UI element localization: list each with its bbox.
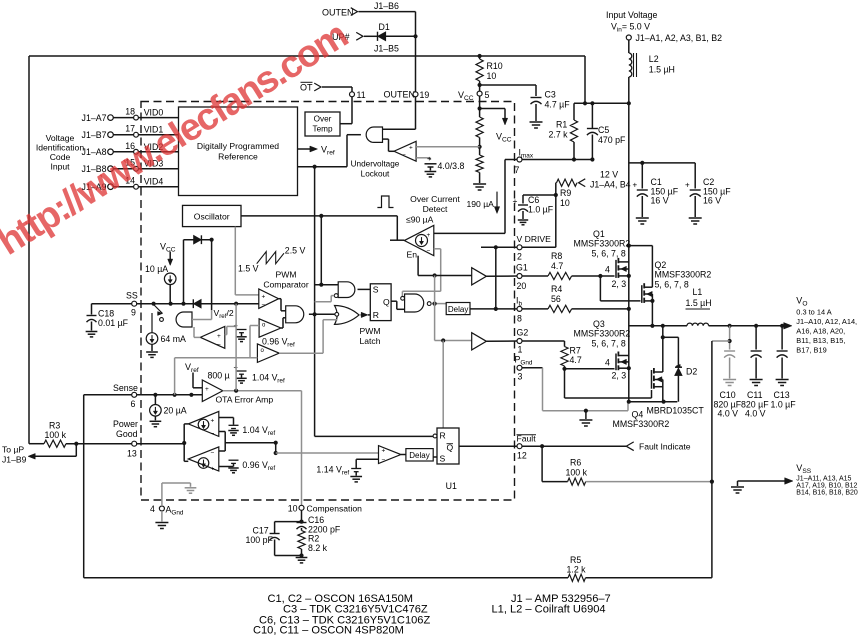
svg-text:G2: G2 (517, 328, 529, 338)
wire sense frame drop (83, 395, 85, 578)
resistor R4 (522, 284, 572, 313)
node sawtooth (238, 246, 305, 274)
svg-text:6: 6 (131, 399, 136, 409)
node VID caption (36, 133, 84, 172)
svg-text:1.04 V: 1.04 V (252, 373, 278, 383)
svg-text:D2: D2 (686, 367, 697, 377)
svg-text:+: + (382, 448, 386, 455)
wire Q3 gate feed (565, 368, 615, 370)
capacitor C1 (633, 163, 679, 217)
ground 64mA (146, 344, 158, 357)
svg-text:100 k: 100 k (566, 468, 588, 478)
svg-text:Fault Indicate: Fault Indicate (639, 442, 691, 452)
current source 10uA (145, 264, 176, 285)
node 0.96 PG label (242, 460, 275, 472)
block oscillator (183, 205, 242, 226)
svg-text:Latch: Latch (359, 336, 380, 346)
svg-text:C11: C11 (747, 390, 763, 400)
svg-text:−: − (211, 431, 215, 438)
wire 1.14 to delay (401, 454, 406, 456)
node VCC flag internal (160, 242, 176, 266)
resistor R5 (567, 555, 587, 581)
svg-text:4.0/3.8: 4.0/3.8 (438, 161, 465, 171)
node Vin label (606, 10, 657, 34)
wire AND1 out (309, 312, 335, 316)
ground 1.04 ref (236, 378, 246, 383)
svg-text:ref: ref (287, 342, 295, 349)
wire pin11 to OverTemp (340, 97, 352, 124)
svg-text:1.2 k: 1.2 k (567, 564, 587, 574)
svg-text:A16, A18, A20,: A16, A18, A20, (796, 327, 845, 336)
gate UVLO and (366, 127, 382, 142)
svg-text:+: + (427, 154, 432, 163)
wire AGnd external (161, 511, 163, 522)
svg-text:−: − (382, 457, 386, 464)
wire UVLO gate out (298, 135, 361, 169)
pin 19 OUTEN (384, 90, 430, 101)
svg-text:MMSF3300R2: MMSF3300R2 (655, 270, 712, 280)
pin 2 VDRIVE (517, 234, 552, 262)
wire Q2 source (650, 294, 654, 328)
wire G2 (522, 341, 565, 347)
svg-text:+: + (205, 386, 209, 393)
terminal J1&#8211;A8 (82, 147, 114, 157)
resistor R6 (566, 458, 588, 486)
pin 5 VCC (458, 90, 490, 102)
svg-text:4.0 V: 4.0 V (745, 409, 766, 419)
ground 0.96 ref (236, 337, 246, 342)
wire Q4 gate feed (565, 369, 652, 398)
wire divider tap (478, 138, 482, 156)
wire fault R input (315, 435, 433, 437)
node Vref OTA (185, 362, 202, 388)
comparator PG lower (184, 447, 219, 473)
svg-text:C3: C3 (545, 90, 556, 100)
svg-text:1.0 µF: 1.0 µF (771, 400, 797, 410)
battery 1.04 PG (219, 418, 239, 429)
svg-text:Q4: Q4 (632, 410, 644, 420)
svg-text:Identification: Identification (36, 143, 84, 153)
comparator 0.96 (259, 319, 281, 337)
svg-text:B11, B13, B15,: B11, B13, B15, (796, 336, 845, 345)
svg-text:MMSF3300R2: MMSF3300R2 (574, 239, 631, 249)
node U1 label (446, 481, 457, 491)
wire UP# to D1 (364, 35, 378, 37)
svg-text:Q1: Q1 (593, 229, 605, 239)
svg-text:R: R (440, 431, 446, 441)
svg-text:OUTEN: OUTEN (322, 8, 354, 18)
ground PGnd (579, 411, 592, 426)
svg-text:+: + (217, 333, 221, 340)
svg-text:C17: C17 (253, 526, 269, 536)
svg-text:470 pF: 470 pF (598, 135, 626, 145)
transistor Q1 (574, 229, 631, 289)
pin 10 Compensation (288, 504, 362, 514)
diode D1 (374, 22, 399, 54)
wire PWM out (279, 299, 286, 311)
wire Sense left (84, 394, 132, 396)
current source 64mA (146, 333, 186, 345)
svg-text:U1: U1 (446, 481, 457, 491)
svg-text:MMSF3300R2: MMSF3300R2 (613, 419, 670, 429)
wire comp2 out (281, 318, 286, 328)
svg-text:20 µA: 20 µA (164, 406, 187, 416)
wire VID0 to reference (138, 117, 178, 119)
wire J1&#8211;B7 to pin (113, 134, 133, 136)
svg-text:J1–A8: J1–A8 (82, 147, 107, 157)
gate OR pwm (335, 306, 360, 325)
wire L2 to node (628, 77, 630, 103)
svg-text:+: + (685, 181, 690, 190)
wire PGnd route (522, 368, 628, 413)
wire clamp comp in (225, 326, 236, 334)
svg-text:Comparator: Comparator (263, 280, 309, 290)
ground 1.14 (350, 477, 362, 482)
pin 7 Imax (515, 148, 534, 176)
svg-text:Delay: Delay (448, 305, 468, 314)
svg-text:PWM: PWM (275, 270, 296, 280)
gate NAND1 (334, 282, 355, 298)
wire rail drop to input node (584, 56, 586, 103)
wire Vcc diode branch (184, 238, 214, 304)
node OT (300, 82, 321, 92)
wire J1&#8211;B8 to pin (113, 168, 133, 170)
node PWM comparator caption (263, 270, 309, 290)
resistor divider upper (476, 117, 483, 138)
wire OR out (361, 312, 371, 317)
transistor Q3 (574, 319, 631, 381)
wire En out (390, 239, 404, 241)
node input junction (574, 101, 631, 105)
node 1.04 label (252, 373, 285, 385)
svg-text:0.3 to 14 A: 0.3 to 14 A (796, 308, 831, 317)
svg-text:J1–A7: J1–A7 (82, 113, 107, 123)
svg-text:S: S (440, 454, 446, 464)
svg-text:4.0 V: 4.0 V (718, 409, 739, 419)
svg-text:J1–B5: J1–B5 (374, 44, 399, 54)
svg-text:800 µ: 800 µ (208, 371, 230, 381)
wire clamp comp out (194, 327, 200, 337)
capacitor C6 (513, 195, 554, 219)
pin 20 G1 (516, 263, 528, 292)
wire NAND1 out (358, 288, 371, 290)
block digitally programmed reference (179, 107, 298, 196)
svg-text:J1–A4, B4: J1–A4, B4 (590, 180, 631, 190)
svg-text:Reference: Reference (218, 152, 258, 162)
svg-text:R6: R6 (570, 458, 581, 468)
svg-text:B14, B16, B18, B20: B14, B16, B18, B20 (796, 490, 858, 497)
ground C3 (530, 122, 543, 128)
svg-text:Voltage: Voltage (46, 133, 75, 143)
svg-text:4.7: 4.7 (570, 355, 582, 365)
node UP# (332, 32, 363, 42)
ground C1 (636, 218, 649, 224)
svg-text:Over: Over (314, 115, 332, 124)
wire OTA out (223, 389, 302, 393)
wire Vcc top rail (29, 55, 585, 57)
svg-text:3: 3 (518, 372, 523, 382)
wire Q out (391, 301, 405, 309)
wire Delay to Ib (470, 308, 517, 310)
terminal J1 input (626, 33, 722, 43)
svg-text:D1: D1 (379, 22, 390, 32)
wire to 1.14 comp (274, 443, 379, 455)
wire R4 to rail (572, 307, 631, 311)
wire R3 (29, 443, 44, 445)
node 190uA (467, 192, 500, 214)
svg-text:2, 3: 2, 3 (612, 279, 627, 289)
svg-text:Oscillator: Oscillator (194, 212, 230, 222)
svg-text:R2: R2 (308, 534, 319, 544)
svg-text:19: 19 (420, 90, 430, 100)
terminal J1&#8211;A9 (82, 182, 114, 192)
wire bottom rail (84, 577, 568, 579)
svg-text:12 V: 12 V (600, 170, 618, 180)
wire 10uA to SS (169, 285, 171, 304)
resistor R10 (476, 54, 503, 91)
wire PG comp outs (219, 432, 278, 452)
battery 1.14 (351, 459, 378, 475)
wire R6 to Vo drop (586, 480, 714, 484)
wire R9 to VDRIVE (554, 183, 558, 248)
resistor R8 (522, 251, 572, 280)
wire VID1 to reference (138, 134, 178, 136)
wire VID4 to reference (138, 186, 178, 188)
wire Vcc internal (478, 96, 506, 117)
capacitor C3 (531, 90, 571, 122)
node Vo labels (796, 296, 857, 355)
svg-text:J1–A1, A2, A3, B1, B2: J1–A1, A2, A3, B1, B2 (636, 33, 723, 43)
svg-text:−: − (402, 152, 406, 159)
capacitor C5 (587, 103, 626, 159)
comparator Vref2 clamp (200, 326, 225, 348)
svg-text:MBRD1035CT: MBRD1035CT (647, 406, 705, 416)
ground UVLO battery (425, 172, 437, 177)
block delay2 (406, 449, 433, 461)
wire SS bus (137, 302, 259, 306)
wire C6 branch (523, 194, 556, 196)
latch PWM (370, 284, 391, 321)
diode SS clamp (193, 299, 201, 308)
resistor divider lower (476, 155, 483, 183)
pin 15 VID3 (125, 158, 163, 171)
latch fault (433, 428, 459, 464)
svg-text:−: − (427, 248, 431, 255)
wire comp3 in (175, 326, 260, 358)
svg-text:2, 3: 2, 3 (612, 371, 627, 381)
node OUTEN top (322, 1, 399, 18)
svg-text:10: 10 (487, 71, 497, 81)
svg-text:64 mA: 64 mA (161, 334, 187, 344)
svg-text:+: + (409, 145, 413, 152)
svg-text:5, 6, 7, 8: 5, 6, 7, 8 (592, 249, 626, 259)
svg-text:Sense: Sense (113, 383, 138, 393)
resistor R1 (549, 103, 578, 159)
pin 8 Ib (516, 296, 522, 324)
svg-text:Input Voltage: Input Voltage (606, 10, 657, 20)
pin 3 PGnd (515, 355, 533, 382)
svg-text:C2: C2 (703, 177, 714, 187)
wire Vref vertical (314, 167, 316, 437)
battery 0.96 ref (234, 321, 247, 336)
svg-text:4.7 µF: 4.7 µF (545, 100, 571, 110)
wire En plus to Imax (434, 160, 505, 234)
node VSS labels (796, 463, 858, 497)
wire D1 to OUTEN (386, 35, 416, 37)
svg-text:C10, C11 – OSCON 4SP820M: C10, C11 – OSCON 4SP820M (253, 625, 404, 635)
svg-text:V DRIVE: V DRIVE (517, 234, 552, 244)
svg-text:Temp: Temp (312, 125, 332, 134)
svg-text:+: + (427, 232, 431, 239)
wire comp bottom (275, 553, 304, 557)
wire Sense bus (137, 393, 203, 397)
svg-text:J1–B6: J1–B6 (374, 1, 399, 11)
wire Vo sense drop (712, 326, 732, 350)
resistor R3 (44, 421, 67, 448)
buffer G2 driver (472, 333, 487, 350)
svg-text:ref: ref (268, 430, 276, 437)
svg-text:C16: C16 (308, 515, 324, 525)
wire En to G1 line (418, 256, 472, 278)
node UVLO caption (351, 160, 400, 179)
svg-text:1.5 V: 1.5 V (238, 264, 259, 274)
wire bottom rail right (586, 341, 712, 578)
svg-text:L1, L2 – Coilraft U6904: L1, L2 – Coilraft U6904 (492, 604, 606, 616)
svg-text:1.5 µH: 1.5 µH (686, 298, 712, 308)
svg-text:4: 4 (150, 504, 155, 514)
svg-text:R4: R4 (551, 284, 562, 294)
svg-text:R: R (373, 310, 379, 320)
svg-text:C1: C1 (651, 177, 662, 187)
wire comp3 out (279, 352, 323, 354)
svg-text:0.01 µF: 0.01 µF (98, 318, 129, 328)
svg-text:A17, A19, B10, B12: A17, A19, B10, B12 (796, 483, 857, 490)
svg-text:+: + (211, 466, 215, 473)
ground divider (473, 184, 486, 190)
wire OT to pin11 (322, 87, 352, 92)
diode D2 (675, 364, 698, 401)
svg-text:C18: C18 (98, 309, 114, 319)
svg-text:Q3: Q3 (593, 319, 605, 329)
gate AND1 (286, 306, 304, 323)
wire fault indicate (522, 442, 634, 451)
svg-text:10: 10 (288, 504, 298, 514)
svg-text:ref: ref (268, 465, 276, 472)
wire G1 driver out (486, 275, 517, 277)
pin 14 VID4 (125, 176, 163, 189)
svg-text:C6: C6 (528, 195, 539, 205)
ground 20uA (150, 416, 162, 427)
svg-text:4: 4 (605, 265, 610, 275)
svg-text:R10: R10 (487, 61, 503, 71)
svg-text:5: 5 (485, 90, 490, 100)
pin 18 VID0 (125, 107, 163, 120)
wire Q4 source (662, 380, 664, 402)
svg-text:ref: ref (342, 470, 350, 477)
svg-text:−: − (262, 302, 266, 309)
svg-text:0.96 V: 0.96 V (242, 460, 268, 470)
comparator PG upper (184, 411, 219, 437)
wire osc ramp (235, 227, 258, 295)
svg-text:190 µA: 190 µA (467, 199, 495, 209)
comparator 1.14 (379, 446, 401, 464)
wire fault R feed (442, 341, 444, 429)
svg-text:B17, B19: B17, B19 (796, 346, 826, 355)
node VCC flag (496, 109, 512, 144)
battery 0.96 PG (219, 460, 239, 466)
transistor SS clamp (152, 305, 163, 333)
terminal J1&#8211;B7 (82, 130, 114, 140)
node Vref out (298, 145, 335, 157)
node fault indicate label (639, 442, 691, 452)
svg-text:R3: R3 (49, 421, 60, 431)
node pulse glyph (377, 196, 393, 208)
svg-text:100 k: 100 k (45, 430, 67, 440)
wire AGnd internal (162, 483, 191, 506)
current source 20uA (150, 395, 187, 416)
svg-text:5, 6, 7, 8: 5, 6, 7, 8 (592, 339, 626, 349)
IC U1 boundary (141, 102, 515, 501)
wire En minus (402, 249, 440, 296)
svg-text:2.5 V: 2.5 V (285, 246, 306, 256)
terminal J1&#8211;A7 (82, 113, 114, 123)
pin 16 VID2 (125, 141, 163, 154)
svg-text:9: 9 (131, 308, 136, 318)
svg-text:10 µA: 10 µA (145, 264, 168, 274)
node 0.96 label (262, 337, 295, 349)
wire UVLO gate in2 (383, 139, 395, 151)
svg-text:Good: Good (116, 429, 138, 439)
svg-text:16 V: 16 V (703, 196, 721, 206)
capacitor C13 (771, 326, 797, 410)
node PWM latch caption (359, 326, 380, 346)
svg-text:Power: Power (113, 419, 138, 429)
wire low source bus (627, 400, 678, 404)
wire Q2 gate feed (600, 276, 640, 301)
transistor Q2 (642, 260, 712, 303)
wire compensation drop (301, 391, 303, 506)
svg-text:Over Current: Over Current (410, 194, 460, 204)
wire 5V rail down (628, 103, 630, 401)
block delay1 (446, 303, 470, 315)
svg-text:R7: R7 (570, 346, 581, 356)
svg-text:J1–A10, A12, A14,: J1–A10, A12, A14, (796, 317, 857, 326)
ground C13 (776, 380, 789, 386)
wire SS to OTA clamp (235, 304, 237, 391)
ground AGnd (155, 523, 168, 529)
wire VID2 to reference (138, 151, 178, 153)
svg-text:1.14 V: 1.14 V (316, 465, 342, 475)
svg-text:J1–B9: J1–B9 (2, 455, 27, 465)
svg-text:S: S (373, 285, 379, 295)
svg-text:R8: R8 (551, 251, 562, 261)
svg-text:Q: Q (383, 297, 390, 307)
svg-text:Delay: Delay (409, 451, 429, 460)
svg-text:R9: R9 (560, 188, 571, 198)
wire J1&#8211;A8 to pin (113, 151, 133, 153)
capacitor C17 (246, 522, 302, 556)
wire C1C2 branch (629, 161, 695, 165)
wire VDRIVE (481, 245, 556, 249)
wire J1&#8211;A7 to pin (113, 117, 133, 119)
wire J1&#8211;A9 to pin (113, 186, 133, 188)
svg-text:13: 13 (127, 449, 137, 459)
ground C11 (750, 380, 763, 386)
svg-text:En: En (407, 250, 418, 260)
svg-text:7: 7 (515, 165, 520, 175)
ground C10 (723, 380, 736, 386)
comparator 1.04 (257, 344, 279, 363)
